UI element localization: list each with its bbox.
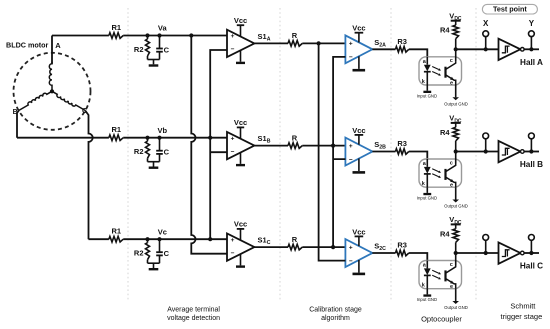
ground RC row B xyxy=(149,167,159,169)
phototransistor Q3 row C xyxy=(444,270,446,281)
resistor R2 row A xyxy=(147,36,149,40)
svg-text:k: k xyxy=(422,181,426,187)
wire schmitt output row B xyxy=(524,151,539,153)
svg-text:R: R xyxy=(292,31,298,40)
svg-text:S2A: S2A xyxy=(374,38,386,49)
resistor R row C xyxy=(288,244,302,250)
ground RC row C xyxy=(149,268,159,270)
wire rail Vb row xyxy=(17,137,109,139)
output GND symbol row C xyxy=(452,301,459,304)
stage separator dashed line sep2 xyxy=(279,8,281,302)
optocoupler U1 body xyxy=(419,57,462,85)
svg-text:B: B xyxy=(13,109,18,116)
wire emitter down to output ground row A xyxy=(455,85,457,97)
svg-text:Input GND: Input GND xyxy=(417,297,437,302)
svg-text:e: e xyxy=(450,284,453,290)
wire cross line Va to S1C minus (with hops) xyxy=(191,36,227,254)
wire rail Va row xyxy=(52,35,109,37)
op-amp S1B triangle xyxy=(227,132,254,159)
resistor R1 row A xyxy=(109,33,123,39)
junction dot test point X row A xyxy=(484,47,488,51)
wire motor terminal C down to row-C rail (long vertical) xyxy=(85,110,93,239)
wire LED cathode to input ground row B xyxy=(426,187,428,193)
svg-text:Hall C: Hall C xyxy=(520,262,543,271)
junction dot cross line at Vb rail xyxy=(208,136,212,140)
svg-text:e: e xyxy=(450,183,453,189)
schmitt inverter bubble row B xyxy=(521,150,525,154)
svg-text:+: + xyxy=(231,33,235,40)
svg-text:C: C xyxy=(164,46,170,55)
wire R2/C bottom join row B xyxy=(148,161,160,163)
optocoupler U2 body xyxy=(419,159,462,187)
stage separator dashed line sep1 xyxy=(127,8,129,302)
wire R to comparator S2B + input xyxy=(302,145,345,147)
svg-text:Optocoupler: Optocoupler xyxy=(421,315,462,324)
svg-text:Output GND: Output GND xyxy=(444,305,468,310)
junction dot Va branch to cross line xyxy=(189,33,193,37)
VDC supply row A xyxy=(451,20,461,22)
optocoupler U3 body xyxy=(419,261,462,289)
svg-text:Hall B: Hall B xyxy=(520,160,543,169)
Vcc supply comparator S2C xyxy=(358,236,360,246)
resistor R2 row C xyxy=(147,239,149,243)
LED light arrows row A xyxy=(432,67,439,70)
svg-text:X: X xyxy=(483,19,489,28)
junction dot test point Y row C xyxy=(529,251,533,255)
ground comparator S2A xyxy=(358,56,360,69)
wire collector up to node row C xyxy=(455,253,457,265)
junction dot Vb/R2 xyxy=(145,136,149,140)
svg-text:Vcc: Vcc xyxy=(234,16,247,25)
wire emitter down to output ground row C xyxy=(455,289,457,301)
svg-text:C: C xyxy=(164,249,170,258)
test point callout pill xyxy=(482,4,537,14)
svg-text:−: − xyxy=(231,46,235,53)
svg-text:S1C: S1C xyxy=(258,236,271,247)
wire motor terminal B down to row-B rail xyxy=(17,110,19,137)
test point circle X row A xyxy=(485,37,487,50)
svg-text:c: c xyxy=(450,262,453,268)
svg-text:A: A xyxy=(55,41,61,50)
capacitor C row B xyxy=(159,138,161,151)
svg-text:Vcc: Vcc xyxy=(352,227,365,236)
junction dot stage2 cross at row C xyxy=(331,245,335,249)
wire schmitt output row C xyxy=(524,252,539,254)
wire R1 to op-amp + input row C xyxy=(123,238,227,240)
svg-text:−: − xyxy=(349,258,353,265)
motor winding coil phase A xyxy=(49,62,52,92)
svg-text:Va: Va xyxy=(158,24,168,33)
VDC supply row C xyxy=(451,223,461,225)
svg-text:c: c xyxy=(450,58,453,64)
wire R to comparator S2C + input xyxy=(302,246,345,248)
Vcc supply comparator S2B xyxy=(358,135,360,145)
wire op-amp S1B output to R xyxy=(254,145,288,147)
Vcc supply op-amp S1C xyxy=(240,229,242,240)
resistor R3 row B xyxy=(396,149,409,155)
svg-text:S1B: S1B xyxy=(258,134,271,145)
svg-text:S1A: S1A xyxy=(258,32,271,43)
phototransistor Q1 row A xyxy=(444,67,446,78)
svg-text:S2C: S2C xyxy=(374,242,386,253)
svg-text:R1: R1 xyxy=(112,227,122,236)
svg-text:R2: R2 xyxy=(134,147,144,156)
schmitt hysteresis glyph row B xyxy=(502,148,510,155)
svg-text:c: c xyxy=(450,160,453,166)
schmitt trigger U4 row A xyxy=(499,39,521,60)
svg-text:R2: R2 xyxy=(134,45,144,54)
wire node to schmitt trigger row B xyxy=(456,151,499,153)
wire R1 to op-amp + input row A xyxy=(123,35,227,37)
svg-text:C: C xyxy=(82,108,87,115)
junction dot Vc/C xyxy=(157,237,161,241)
wire R2/C bottom join row C xyxy=(148,262,160,264)
resistor R row B xyxy=(288,143,302,149)
svg-text:R4: R4 xyxy=(440,26,450,35)
svg-text:R4: R4 xyxy=(440,128,450,137)
test point circle Y row C xyxy=(530,240,532,253)
output GND symbol row B xyxy=(452,200,459,203)
svg-text:Output GND: Output GND xyxy=(444,204,468,209)
svg-text:+: + xyxy=(231,135,235,142)
resistor R1 row C xyxy=(109,236,123,242)
svg-text:BLDC motor: BLDC motor xyxy=(6,41,49,50)
comparator S2C triangle (blue) xyxy=(345,239,372,267)
svg-text:a: a xyxy=(423,161,427,167)
comparator S2B triangle (blue) xyxy=(345,138,372,166)
junction dot Vb/C xyxy=(157,136,161,140)
stage separator dashed line sep4 xyxy=(475,8,477,302)
capacitor C row A xyxy=(159,36,161,49)
BLDC motor stator dashed circle xyxy=(14,53,91,130)
svg-text:C: C xyxy=(164,148,170,157)
svg-text:R2: R2 xyxy=(134,249,144,258)
schmitt trigger U5 row B xyxy=(499,141,521,162)
junction dot Va/R2 xyxy=(145,33,149,37)
svg-text:Vcc: Vcc xyxy=(352,24,365,33)
junction dot R4/collector/output rail row A xyxy=(454,47,458,51)
wire R1 to op-amp + input row B xyxy=(123,137,227,139)
Vcc supply comparator S2A xyxy=(358,33,360,43)
svg-text:+: + xyxy=(349,41,353,48)
svg-text:R: R xyxy=(292,133,298,142)
optocoupler LED row C xyxy=(426,261,428,269)
optocoupler LED row B xyxy=(426,159,428,167)
ground op-amp S1B xyxy=(240,152,242,164)
junction dot calibration branch row A xyxy=(317,41,321,45)
svg-text:Output GND: Output GND xyxy=(444,101,468,106)
svg-text:S2B: S2B xyxy=(374,140,386,151)
wire cross line S2A minus / row B / S2B minus chain xyxy=(333,57,345,247)
wire cross line stage2 row A node to S2C minus xyxy=(319,43,346,260)
capacitor C row C xyxy=(159,239,161,252)
motor winding coil phase C xyxy=(52,91,85,110)
wire emitter down to output ground row B xyxy=(455,187,457,199)
motor neutral node dot xyxy=(50,89,54,93)
wire R3 to optocoupler LED row C xyxy=(409,253,428,261)
schmitt trigger U6 row C xyxy=(499,242,521,263)
phototransistor Q2 row B xyxy=(444,169,446,180)
wire schmitt output row A xyxy=(524,48,539,50)
test point circle X row C xyxy=(485,240,487,253)
junction dot R4/collector/output rail row B xyxy=(454,149,458,153)
wire node to schmitt trigger row C xyxy=(456,252,499,254)
ground op-amp S1C xyxy=(240,254,242,266)
resistor R row A xyxy=(288,41,302,47)
junction dot test point X row B xyxy=(484,149,488,153)
svg-text:a: a xyxy=(423,263,427,269)
motor winding coil phase B xyxy=(19,91,52,110)
svg-text:Hall A: Hall A xyxy=(520,58,543,67)
svg-text:Input GND: Input GND xyxy=(417,94,437,99)
svg-text:R3: R3 xyxy=(397,139,407,148)
svg-text:R1: R1 xyxy=(112,125,122,134)
wire op-amp S1A output to R xyxy=(254,42,288,44)
svg-text:Vb: Vb xyxy=(158,126,168,135)
svg-text:−: − xyxy=(349,54,353,61)
svg-text:Calibration stage: Calibration stage xyxy=(309,307,362,314)
resistor R2 row B xyxy=(147,138,149,142)
svg-text:R1: R1 xyxy=(112,23,122,32)
svg-text:k: k xyxy=(422,283,426,289)
resistor R3 row A xyxy=(396,47,409,53)
op-amp S1C triangle xyxy=(227,233,254,260)
junction dot R4/collector/output rail row C xyxy=(454,251,458,255)
wire rail Vc row xyxy=(89,238,109,240)
svg-text:R3: R3 xyxy=(397,37,407,46)
Vcc supply op-amp S1A xyxy=(240,25,242,36)
wire collector up to node row A xyxy=(455,49,457,61)
ground comparator S2B xyxy=(358,159,360,172)
optocoupler LED row A xyxy=(426,57,428,65)
stage separator dashed line sep3 xyxy=(390,8,392,302)
test point circle Y row A xyxy=(530,37,532,50)
input GND symbol row B xyxy=(423,193,431,195)
svg-text:Test point: Test point xyxy=(493,5,527,14)
ground comparator S2C xyxy=(358,260,360,273)
junction dot Va/C xyxy=(157,33,161,37)
svg-text:Vc: Vc xyxy=(158,227,167,236)
input GND symbol row C xyxy=(423,294,431,296)
schmitt hysteresis glyph row A xyxy=(502,46,510,53)
schmitt hysteresis glyph row C xyxy=(502,250,510,257)
VDC supply row B xyxy=(451,122,461,124)
wire cross line S1A minus / Vb / S1B minus chain xyxy=(210,50,227,239)
wire R2/C bottom join row A xyxy=(148,59,160,61)
svg-text:−: − xyxy=(349,156,353,163)
junction dot Vc/R2 xyxy=(145,237,149,241)
svg-text:+: + xyxy=(231,237,235,244)
wire LED cathode to input ground row C xyxy=(426,289,428,295)
output GND symbol row A xyxy=(452,97,459,100)
op-amp S1A triangle xyxy=(227,30,254,57)
junction dot test point Y row B xyxy=(529,149,533,153)
Vcc supply op-amp S1B xyxy=(240,127,242,138)
svg-text:k: k xyxy=(422,79,426,85)
wire op-amp S1C output to R xyxy=(254,246,288,248)
junction dot cross line at Vc rail xyxy=(208,237,212,241)
wire node to schmitt trigger row A xyxy=(456,48,499,50)
wire comparator S2B output to R3 xyxy=(372,151,395,153)
comparator S2A triangle (blue) xyxy=(345,35,372,63)
svg-text:Vcc: Vcc xyxy=(234,118,247,127)
wire R3 to optocoupler LED row B xyxy=(409,152,428,160)
LED light arrows row C xyxy=(432,270,439,273)
junction dot stage2 cross at row B xyxy=(331,144,335,148)
svg-text:Schmitt: Schmitt xyxy=(510,301,536,310)
svg-text:+: + xyxy=(349,143,353,150)
schmitt inverter bubble row C xyxy=(521,251,525,255)
svg-text:R4: R4 xyxy=(440,229,450,238)
LED light arrows row B xyxy=(432,169,439,172)
wire R3 to optocoupler LED row A xyxy=(409,49,428,57)
wire motor terminal A up to row-A rail xyxy=(51,36,53,64)
junction dot test point Y row A xyxy=(529,47,533,51)
svg-text:trigger stage: trigger stage xyxy=(501,312,543,321)
test point circle Y row B xyxy=(530,139,532,152)
svg-text:voltage detection: voltage detection xyxy=(167,315,220,322)
svg-text:Input GND: Input GND xyxy=(417,196,437,201)
ground op-amp S1A xyxy=(240,50,242,62)
schmitt inverter bubble row A xyxy=(521,48,525,52)
resistor R3 row C xyxy=(396,250,409,256)
wire R to comparator S2A + input xyxy=(302,42,345,44)
resistor R1 row B xyxy=(109,135,123,141)
svg-text:R3: R3 xyxy=(397,241,407,250)
junction dot test point X row C xyxy=(484,251,488,255)
svg-text:−: − xyxy=(231,148,235,155)
wire LED cathode to input ground row A xyxy=(426,85,428,91)
svg-text:R: R xyxy=(292,235,298,244)
svg-text:+: + xyxy=(349,244,353,251)
svg-text:Vcc: Vcc xyxy=(234,220,247,229)
svg-text:algorithm: algorithm xyxy=(321,315,350,322)
svg-text:Y: Y xyxy=(529,19,535,28)
svg-text:Average terminal: Average terminal xyxy=(167,307,220,314)
svg-text:e: e xyxy=(450,80,453,86)
svg-text:a: a xyxy=(423,59,427,65)
ground RC row A xyxy=(149,64,159,66)
wire collector up to node row B xyxy=(455,152,457,164)
resistor R4 row A xyxy=(453,25,459,39)
svg-text:Vcc: Vcc xyxy=(352,126,365,135)
resistor R4 row C xyxy=(453,229,459,243)
test point circle X row B xyxy=(485,139,487,152)
wire comparator S2C output to R3 xyxy=(372,252,395,254)
svg-text:−: − xyxy=(231,250,235,257)
resistor R4 row B xyxy=(453,127,459,141)
input GND symbol row A xyxy=(423,91,431,93)
wire comparator S2A output to R3 xyxy=(372,48,395,50)
